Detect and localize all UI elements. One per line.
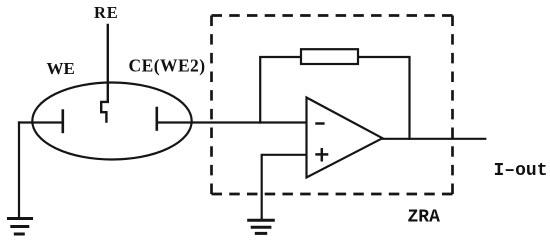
svg-text:CE(WE2): CE(WE2)	[129, 56, 206, 76]
svg-text:RE: RE	[94, 3, 119, 22]
svg-text:WE: WE	[47, 59, 75, 78]
svg-text:I–out: I–out	[494, 161, 548, 181]
svg-text:ZRA: ZRA	[408, 208, 441, 228]
